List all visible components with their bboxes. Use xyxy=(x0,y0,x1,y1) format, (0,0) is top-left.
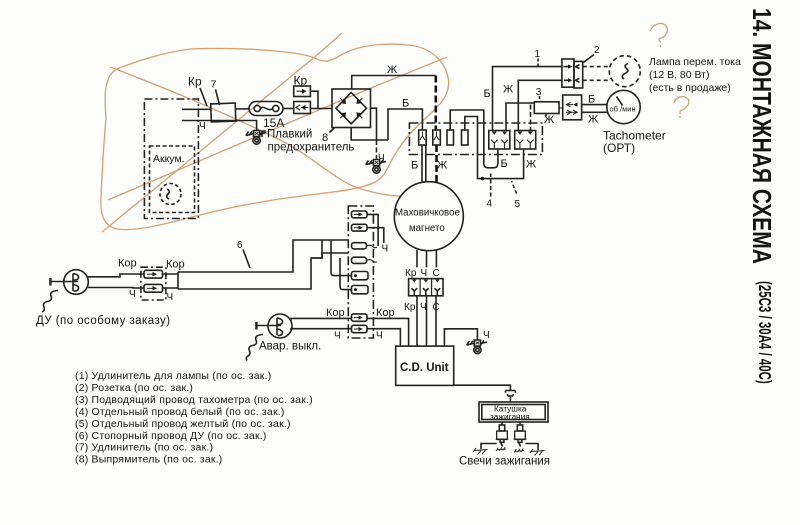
svg-text:(ОРТ): (ОРТ) xyxy=(603,141,635,155)
bullet1 exit wire down xyxy=(367,214,378,246)
svg-text:8: 8 xyxy=(322,132,328,144)
svg-text:(есть в продаже): (есть в продаже) xyxy=(649,82,731,94)
wire battery negative (black) xyxy=(182,121,257,131)
thick cable outline to strip xyxy=(178,240,348,272)
strip bullet 2 xyxy=(352,224,368,231)
orange question-mark squiggle top right xyxy=(650,24,667,47)
wire Ч to CD unit xyxy=(367,329,400,346)
svg-text:С: С xyxy=(433,268,440,279)
wire CD to ground right xyxy=(444,329,477,346)
bullet connector Б (vertical) xyxy=(419,130,427,145)
svg-text:Ж: Ж xyxy=(526,159,536,171)
wire horizontal to connector 3 xyxy=(506,103,534,130)
wire Ж conn3 bottom stub xyxy=(545,114,547,119)
connector 2 block left half xyxy=(562,59,574,87)
svg-text:Ч: Ч xyxy=(421,268,428,279)
svg-text:Ж: Ж xyxy=(588,114,598,126)
svg-text:об./мин: об./мин xyxy=(610,105,636,114)
vertical harness strip (dash-dot) xyxy=(348,206,373,338)
ground near CD unit xyxy=(467,340,487,354)
strip bullet 4 (wavy exit) xyxy=(352,257,378,263)
svg-text:4: 4 xyxy=(487,199,493,210)
wire fuse to bullet connector xyxy=(283,108,294,110)
battery dashed circle terminal xyxy=(160,184,181,205)
battery outer box (dash-dot) xyxy=(144,99,198,219)
svg-text:Ч: Ч xyxy=(167,292,174,303)
spare bullet connector 3rd xyxy=(447,130,454,145)
svg-text:(7) Удлинитель (по ос. зак.): (7) Удлинитель (по ос. зак.) xyxy=(75,442,213,454)
svg-text:Ч: Ч xyxy=(199,121,206,132)
svg-text:Кор: Кор xyxy=(326,307,345,319)
ground at battery negative xyxy=(246,131,266,145)
wire rectifier bottom xyxy=(351,128,388,141)
wire connector7 to fuse xyxy=(236,108,250,110)
orange question-mark squiggle mid right xyxy=(674,97,689,118)
bullet connector Ч lower xyxy=(144,284,163,292)
double connector A xyxy=(489,131,510,150)
strip bullet 5 (dotted terminal) xyxy=(352,272,369,280)
bullet2 exit wire down xyxy=(367,228,384,243)
flywheel magneto circle xyxy=(394,182,463,251)
svg-text:(12 В, 80 Вт): (12 В, 80 Вт) xyxy=(649,69,710,81)
svg-text:Плавкий: Плавкий xyxy=(267,129,312,141)
diode top-right xyxy=(357,98,362,103)
spare bullet connector 4th xyxy=(462,130,469,145)
connector 7 box xyxy=(211,103,236,122)
svg-text:магнето: магнето xyxy=(409,223,445,234)
svg-text:1: 1 xyxy=(535,49,541,60)
block pin arrows xyxy=(412,280,441,296)
tachometer needle xyxy=(617,97,623,106)
wire taps from cable down to bullets 5,6 xyxy=(331,240,352,276)
diode top-left xyxy=(340,98,345,103)
wire rectifier right to lower node xyxy=(371,108,377,140)
battery terminal mark xyxy=(167,189,170,199)
strip bullet 7 xyxy=(352,314,368,321)
svg-text:Ч: Ч xyxy=(129,289,136,300)
connector 2 pins xyxy=(564,64,580,82)
wire CD bottom to ignition coil xyxy=(454,385,511,390)
wires box to cable xyxy=(163,274,179,288)
item5 yellow wire loop to connector B xyxy=(478,133,524,179)
wire Б up from node xyxy=(388,109,422,140)
cable step inner edge xyxy=(311,240,322,258)
cable left end cap xyxy=(177,272,179,289)
wires block to CD unit xyxy=(417,296,436,346)
spare bullet connector Кр xyxy=(294,86,311,97)
lamp dashed circle xyxy=(609,56,640,87)
svg-text:Ж: Ж xyxy=(503,84,513,96)
svg-text:Ч: Ч xyxy=(420,302,427,313)
wire Ж conn2 to junction xyxy=(518,80,562,130)
svg-text:14. МОНТАЖНАЯ СХЕМА: 14. МОНТАЖНАЯ СХЕМА xyxy=(746,8,776,264)
Авар plug circle xyxy=(268,314,292,338)
strip bullet 8 xyxy=(352,325,368,332)
wire 1 (Б) to connector 2 xyxy=(493,67,562,130)
strip bullet 1 xyxy=(352,211,368,218)
svg-text:(25C3 / 30A4 / 40C): (25C3 / 30A4 / 40C) xyxy=(754,281,773,384)
dashed wires connector2 to lamp xyxy=(583,67,610,81)
wires plug to Кор connector xyxy=(88,274,144,277)
svg-text:зажигания: зажигания xyxy=(490,412,530,422)
wire Б pair second conductor xyxy=(425,145,427,182)
magneto output wires Кр Ч С xyxy=(417,250,436,267)
bullet connector Ж (vertical) xyxy=(433,130,441,145)
label Плавкий предохранитель xyxy=(262,131,266,137)
svg-text:Свечи зажигания: Свечи зажигания xyxy=(459,456,550,468)
bullet connector Кор upper xyxy=(144,270,163,278)
svg-text:Маховичковое: Маховичковое xyxy=(395,208,460,219)
svg-text:(4) Отдельный провод белый (по: (4) Отдельный провод белый (по ос. зак.) xyxy=(75,406,285,418)
svg-text:5: 5 xyxy=(515,199,521,210)
fuse end circle right xyxy=(273,105,279,111)
jumper wire from spare connector to main wire xyxy=(310,91,318,108)
item4 white wire loop under connector A xyxy=(484,138,498,168)
svg-text:(6) Стопорный провод ДУ (по ос: (6) Стопорный провод ДУ (по ос. зак.) xyxy=(75,430,267,442)
ground below rectifier xyxy=(366,160,386,174)
fuse 15A body xyxy=(249,102,283,116)
tachometer circle xyxy=(607,90,640,123)
wire Кор to CD unit xyxy=(367,318,409,346)
rectifier 8 box xyxy=(332,89,371,128)
bullet connector pair on main wire xyxy=(294,102,311,114)
double connector B xyxy=(515,131,536,150)
jumper wire from 4th bullet over xyxy=(465,117,478,134)
pointer line 7 xyxy=(216,90,220,106)
svg-text:Б: Б xyxy=(501,158,508,170)
rectifier diode bridge diamond xyxy=(336,93,367,124)
fuse element S-curve xyxy=(260,107,272,109)
svg-text:Б: Б xyxy=(588,94,595,106)
svg-text:ДУ (по особому заказу): ДУ (по особому заказу) xyxy=(36,315,171,327)
wire to coil top xyxy=(509,396,511,402)
ignition coil box xyxy=(479,402,548,422)
svg-text:(5) Отдельный провод желтый (п: (5) Отдельный провод желтый (по ос. зак.… xyxy=(75,418,291,430)
plug prongs xyxy=(73,274,79,292)
diode bottom-right xyxy=(357,113,362,118)
strip bullet 6 (dotted terminal) xyxy=(352,286,369,294)
plug right ground arm xyxy=(525,444,544,456)
connector pair to tachometer xyxy=(559,95,582,120)
battery inner dashed box xyxy=(150,146,195,213)
svg-text:7: 7 xyxy=(211,79,217,91)
jumper wire from 3rd bullet over to connector A xyxy=(450,110,484,138)
lamp filament squiggle xyxy=(622,64,628,80)
svg-text:(8) Выпрямитель (по ос. зак.): (8) Выпрямитель (по ос. зак.) xyxy=(75,454,223,466)
svg-text:6: 6 xyxy=(237,240,243,251)
svg-text:Б: Б xyxy=(402,98,409,110)
plug curly cord xyxy=(42,291,58,313)
diode bottom-left xyxy=(340,113,345,118)
svg-text:Кор: Кор xyxy=(166,259,185,271)
connector 3 box xyxy=(534,102,559,114)
C.D. Unit box xyxy=(396,346,454,385)
svg-text:(3) Подводящий провод тахометр: (3) Подводящий провод тахометра (по ос. … xyxy=(75,394,313,406)
plug stem xyxy=(50,278,78,286)
wire drop to ground below rectifier xyxy=(376,140,378,159)
ДУ connector box dash-dot xyxy=(141,267,166,300)
wire bullet to rectifier xyxy=(310,108,332,110)
coil to spark plug wires xyxy=(502,422,520,425)
wire Ж drop to connector B xyxy=(530,105,532,131)
svg-text:Лампа перем. тока: Лампа перем. тока xyxy=(649,56,741,68)
fuse end circle left xyxy=(254,105,260,111)
plug curly cord xyxy=(246,335,263,361)
plug stem xyxy=(256,322,281,330)
svg-text:Кр: Кр xyxy=(404,302,416,313)
wire Б strip to magneto xyxy=(421,145,423,183)
svg-text:Ч: Ч xyxy=(382,244,389,255)
svg-text:C.D. Unit: C.D. Unit xyxy=(400,362,449,374)
svg-text:Кор: Кор xyxy=(118,258,137,270)
svg-text:Б: Б xyxy=(484,88,491,100)
spark plug left xyxy=(496,425,508,451)
svg-text:Кр: Кр xyxy=(405,268,417,279)
svg-text:(1) Удлинитель для лампы (по о: (1) Удлинитель для лампы (по ос. зак.) xyxy=(75,370,271,382)
inline connector break xyxy=(506,391,516,397)
svg-text:Авар. выкл.: Авар. выкл. xyxy=(259,341,321,353)
svg-text:2: 2 xyxy=(594,45,600,56)
orange freehand loop annotation xyxy=(101,44,449,230)
wire Ж strip to magneto (thick dashed) xyxy=(435,145,438,183)
orange cross stroke (down-right) xyxy=(110,67,400,196)
orange cross stroke (steep up-right with tail) xyxy=(102,33,342,232)
harness strip box (dash-dot) xyxy=(409,123,542,155)
junction dot xyxy=(481,177,485,181)
plug left ground arm xyxy=(473,444,497,455)
wire battery positive to connector 7 xyxy=(182,108,211,110)
svg-text:Ч: Ч xyxy=(483,330,490,341)
wire Ж to tachometer xyxy=(582,111,608,113)
svg-text:Аккум.: Аккум. xyxy=(153,153,185,165)
wire Ж from rectifier top xyxy=(352,76,436,90)
strip bullet 3 (wavy exit) xyxy=(352,243,378,249)
wires plug to strip bullets xyxy=(291,318,352,320)
magneto 3-pin connector block xyxy=(409,279,443,296)
wire Б to tachometer xyxy=(582,104,608,106)
ДУ plug circle xyxy=(64,270,89,295)
wire Ж thick dashed down to strip xyxy=(434,76,437,131)
svg-text:Ж: Ж xyxy=(437,160,447,172)
svg-text:Ч: Ч xyxy=(376,331,383,342)
svg-text:Кр: Кр xyxy=(188,75,202,89)
spark plug right xyxy=(514,425,526,453)
svg-text:Ч: Ч xyxy=(334,331,341,342)
svg-text:Ж: Ж xyxy=(387,64,397,76)
svg-text:Кор: Кор xyxy=(376,307,395,319)
svg-text:Ж: Ж xyxy=(544,114,554,126)
orange cross stroke (shallow up-right) xyxy=(108,57,447,200)
svg-text:Б: Б xyxy=(411,160,418,172)
svg-text:предохранитель: предохранитель xyxy=(268,142,355,154)
pointer line Кр xyxy=(200,88,207,106)
connector 2 block right half xyxy=(574,61,583,88)
svg-text:(2) Розетка (по ос. зак.): (2) Розетка (по ос. зак.) xyxy=(75,382,193,394)
plug prongs xyxy=(277,318,283,336)
